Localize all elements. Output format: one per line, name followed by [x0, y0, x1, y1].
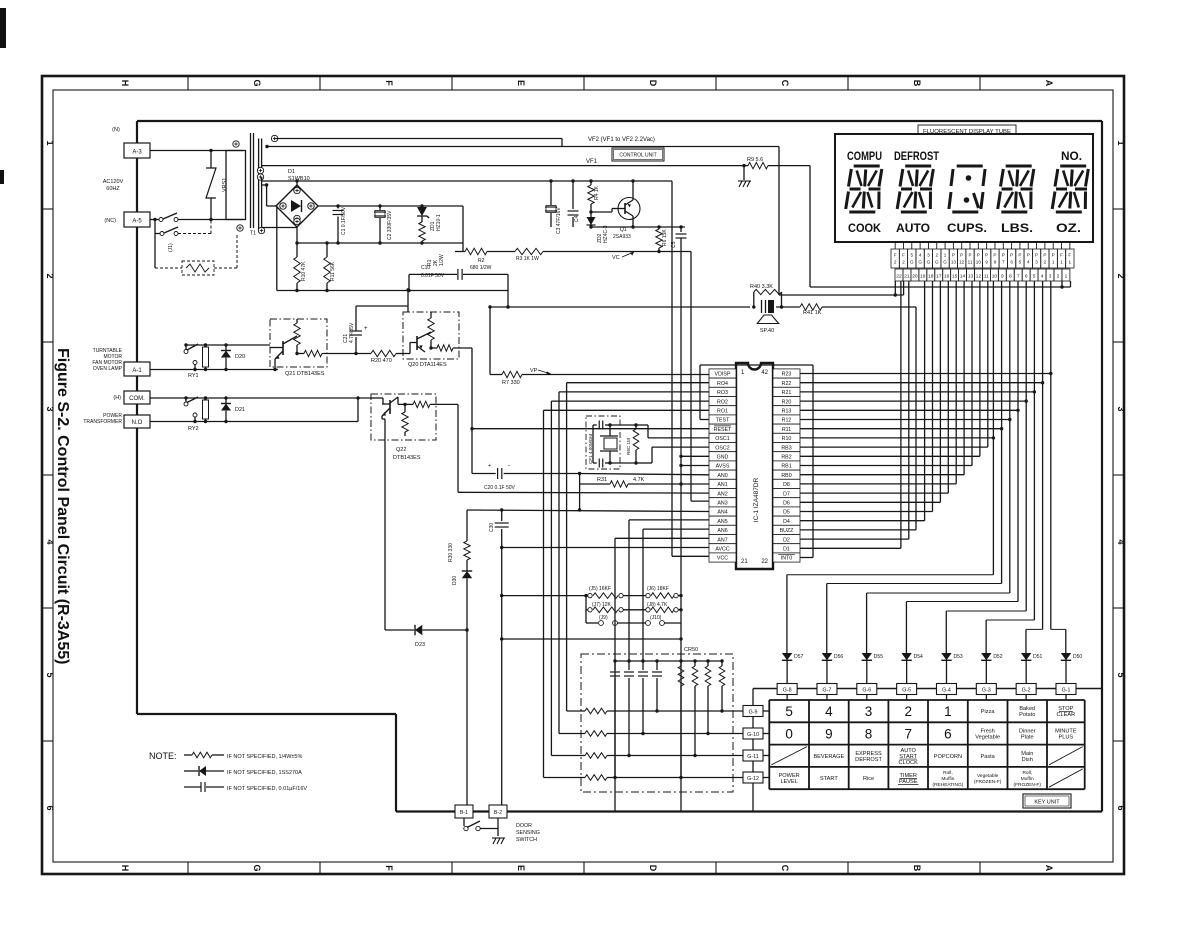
svg-text:P: P [968, 253, 971, 258]
svg-text:TRANSFORMER: TRANSFORMER [83, 419, 122, 425]
scan line RO4 [567, 382, 709, 384]
zener ZD2 HZ4C-3 [590, 212, 592, 227]
svg-text:5: 5 [1116, 672, 1126, 677]
transformer T1 secondary winding [258, 139, 260, 231]
svg-text:VDISP: VDISP [715, 372, 731, 378]
capacitor C4 [572, 181, 574, 209]
note capacitor symbol [184, 786, 201, 788]
wire D5 [800, 511, 933, 513]
svg-text:POPCORN: POPCORN [934, 754, 962, 760]
wire COM to Q22 [150, 397, 371, 399]
svg-text:19: 19 [920, 274, 926, 280]
wire N.O line [150, 421, 358, 423]
svg-text:START: START [820, 776, 838, 782]
svg-text:11: 11 [968, 260, 973, 265]
svg-text:Q21 DTB143ES: Q21 DTB143ES [285, 371, 325, 377]
IC-1 right pin INT0 [773, 553, 800, 562]
svg-text:2: 2 [45, 273, 55, 278]
svg-text:P: P [1010, 253, 1013, 258]
svg-text:2: 2 [1057, 274, 1060, 280]
svg-text:6: 6 [1116, 805, 1126, 810]
svg-text:4: 4 [45, 539, 55, 544]
svg-text:-: - [508, 462, 510, 469]
svg-text:Vegetable: Vegetable [977, 773, 999, 779]
svg-text:CF1 4.00MGM: CF1 4.00MGM [588, 434, 593, 464]
svg-text:F: F [1060, 253, 1063, 258]
ceramic filter CF1 4.00MHz [586, 416, 620, 469]
svg-text:S1WB10: S1WB10 [288, 176, 310, 182]
svg-text:LEVEL: LEVEL [780, 779, 797, 785]
svg-text:3: 3 [1049, 274, 1052, 280]
key blank diag 1 [771, 747, 807, 765]
RY1 top line [186, 344, 270, 346]
wire stair R23 to key column [1050, 374, 1052, 630]
svg-text:11: 11 [984, 274, 989, 280]
IC-1 right pin RB1 [773, 461, 800, 470]
svg-text:5: 5 [1033, 274, 1036, 280]
wire RB0 [800, 474, 964, 476]
svg-text:1: 1 [1116, 140, 1126, 145]
svg-text:OZ.: OZ. [1056, 221, 1081, 235]
note resistor symbol [184, 754, 192, 756]
zener ZD1 HZ10-1 [421, 206, 423, 207]
svg-text:18: 18 [928, 274, 934, 280]
svg-text:C3 47F/16V: C3 47F/16V [556, 207, 562, 234]
varistor VRS1 [210, 151, 212, 169]
svg-text:12: 12 [976, 274, 982, 280]
svg-text:R12: R12 [782, 418, 792, 424]
resistor R9 5.6 [745, 165, 748, 167]
crystal to OSC pins [636, 424, 648, 426]
diode D54 [901, 653, 911, 660]
svg-text:D6: D6 [783, 501, 790, 507]
svg-text:3: 3 [1116, 406, 1126, 411]
IC-1 left pin RO2 [709, 397, 736, 406]
svg-text:1: 1 [944, 253, 947, 258]
IC-1 left pin AN7 [709, 535, 736, 544]
R30 330 column [466, 510, 468, 541]
svg-text:(N): (N) [112, 127, 120, 133]
svg-text:NO.: NO. [1061, 151, 1082, 163]
svg-text:D5: D5 [783, 510, 790, 516]
svg-text:G: G [943, 260, 947, 265]
IC-1 left pin VCC [709, 553, 736, 562]
svg-text:6: 6 [1010, 260, 1013, 265]
svg-text:R13: R13 [782, 409, 792, 415]
svg-text:2SA933: 2SA933 [613, 234, 631, 240]
node G-2 [1016, 684, 1036, 695]
display tube box [835, 134, 1093, 242]
svg-text:D56: D56 [834, 654, 843, 660]
terminal A-1 [124, 362, 150, 376]
svg-text:42: 42 [761, 370, 768, 376]
wire R20 [800, 400, 1026, 402]
svg-text:COMPU: COMPU [847, 151, 882, 163]
svg-text:20: 20 [912, 274, 918, 280]
svg-text:Roll,: Roll, [1022, 770, 1032, 776]
diode D53 [941, 653, 951, 660]
svg-text:E: E [516, 80, 526, 86]
svg-text:D57: D57 [794, 654, 803, 660]
CR50 top bus [615, 660, 722, 662]
svg-text:8: 8 [1009, 274, 1012, 280]
IC-1 right pin D2 [773, 535, 800, 544]
DC- rail [296, 227, 298, 257]
wire AN4 rail [467, 510, 709, 512]
svg-text:C: C [780, 865, 790, 872]
svg-text:9: 9 [1001, 274, 1004, 280]
resistor key row G-11 [551, 755, 585, 757]
svg-text:F: F [384, 80, 394, 86]
svg-text:680 1/2W: 680 1/2W [470, 265, 492, 271]
svg-text:LBS.: LBS. [1001, 221, 1033, 235]
rail 182 [262, 180, 672, 182]
wire RB2 [800, 455, 980, 457]
IC-1 right pin R21 [773, 387, 800, 396]
IC-1 left pin AN4 [709, 507, 736, 516]
Q21 output resistor [297, 353, 304, 355]
svg-text:(FROZEN-F): (FROZEN-F) [974, 779, 1002, 785]
svg-text:P: P [952, 253, 955, 258]
wire D1 [800, 547, 901, 549]
svg-text:G: G [935, 260, 939, 265]
wire Q20 output / RESET / C20 [471, 348, 473, 474]
Q20 output resistor [425, 348, 437, 352]
svg-text:R30 330: R30 330 [448, 543, 454, 562]
svg-text:G: G [252, 79, 262, 86]
svg-text:P: P [1002, 253, 1005, 258]
svg-text:COM.: COM. [129, 396, 145, 402]
resistor key row G-12 [544, 777, 586, 779]
wire D8 [800, 483, 956, 485]
svg-text:1: 1 [45, 140, 55, 145]
capacitor C30 [501, 510, 503, 521]
svg-text:INT0: INT0 [781, 556, 793, 562]
key blank diag 2 [1049, 747, 1083, 765]
svg-text:RB1: RB1 [781, 464, 791, 470]
IC-1 left pin AN1 [709, 479, 736, 488]
svg-text:D54: D54 [914, 654, 923, 660]
svg-text:+: + [488, 463, 491, 469]
svg-text:C1 0.1F/50V: C1 0.1F/50V [341, 206, 347, 235]
Q22 output resistor [397, 397, 399, 404]
wire D7 [800, 492, 948, 494]
svg-text:4: 4 [1116, 539, 1126, 544]
IC-1 right pin D6 [773, 498, 800, 507]
svg-text:R41 1K: R41 1K [803, 310, 822, 316]
display connector pin number row [895, 269, 903, 281]
svg-text:IC-1 IZA487DR: IC-1 IZA487DR [753, 477, 760, 522]
svg-text:AN1: AN1 [717, 482, 727, 488]
DC+ rail [318, 205, 463, 207]
key blank diag 3 [1049, 769, 1083, 787]
svg-text:Figure S-2. Control Panel Cir: Figure S-2. Control Panel Circuit (R-3A5… [54, 348, 71, 664]
svg-text:PLUS: PLUS [1059, 734, 1074, 740]
svg-text:HZ10-1: HZ10-1 [436, 214, 442, 231]
wire R12 [800, 419, 1010, 421]
svg-text:Roll,: Roll, [943, 770, 953, 776]
svg-text:B-2: B-2 [494, 810, 502, 816]
IC-1 right pin RB0 [773, 470, 800, 479]
diode D51 [1021, 653, 1031, 660]
svg-text:5: 5 [45, 672, 55, 677]
diode D57 [782, 653, 792, 660]
interlock switch 2 (J1) [153, 218, 156, 221]
svg-text:E: E [516, 865, 526, 871]
svg-text:15: 15 [952, 274, 958, 280]
jumper (J7) 12K [586, 609, 588, 611]
svg-text:1: 1 [1065, 274, 1068, 280]
CR50 resistor 4 [720, 659, 723, 662]
svg-text:(J8) 4.7K: (J8) 4.7K [647, 602, 668, 608]
svg-text:R11 56K: R11 56K [330, 261, 336, 281]
CR50 resistor 2 [693, 659, 696, 662]
svg-text:R10 47K: R10 47K [301, 261, 307, 281]
node G-11 [743, 750, 763, 761]
wire VF1 [262, 165, 745, 167]
IC-1 right pin D5 [773, 507, 800, 516]
transistor Q1 2SA933 [618, 198, 640, 220]
svg-text:P: P [960, 253, 963, 258]
svg-text:G: G [918, 260, 922, 265]
svg-text:DEFROST: DEFROST [894, 151, 939, 163]
T1 terminal marks [233, 141, 239, 147]
IC-1 right pin D1 [773, 544, 800, 553]
svg-text:D2: D2 [783, 537, 790, 543]
IC-1 left pin OSC1 [709, 433, 736, 442]
IC-1 right pin RB3 [773, 443, 800, 452]
svg-text:VC: VC [612, 255, 620, 261]
svg-text:5: 5 [785, 704, 793, 719]
svg-text:Pizza: Pizza [981, 709, 996, 715]
svg-text:RB3: RB3 [781, 445, 791, 451]
CR50 resistor 1 [679, 659, 682, 662]
svg-text:RO3: RO3 [717, 390, 728, 396]
svg-text:SWITCH: SWITCH [516, 837, 537, 843]
svg-text:G-1: G-1 [1062, 688, 1071, 694]
svg-text:2: 2 [935, 253, 938, 258]
svg-text:6: 6 [1025, 274, 1028, 280]
svg-text:TEST: TEST [716, 418, 730, 424]
svg-text:AN5: AN5 [717, 519, 727, 525]
capacitor C3 47F/16V [550, 181, 552, 205]
svg-text:(FROZEN-F): (FROZEN-F) [1014, 782, 1042, 788]
svg-text:C4: C4 [574, 215, 580, 222]
IC-1 left pin AN5 [709, 516, 736, 525]
node G-4 [936, 684, 956, 695]
wire VF1 to F1 pins [809, 166, 811, 287]
svg-text:F: F [894, 253, 897, 258]
relay RY1 contact [185, 345, 187, 350]
svg-text:KEY UNIT: KEY UNIT [1034, 800, 1060, 806]
svg-text:BEVERAGE: BEVERAGE [813, 754, 844, 760]
svg-text:IF NOT SPECIFIED, 1/4W±5%: IF NOT SPECIFIED, 1/4W±5% [227, 754, 302, 760]
svg-text:G-7: G-7 [823, 688, 832, 694]
resistor R31 4.7K [579, 474, 581, 511]
transistor Q20 DTA114ES [403, 312, 459, 359]
svg-text:13: 13 [951, 260, 957, 265]
svg-text:AUTO: AUTO [896, 221, 930, 235]
svg-text:F: F [384, 865, 394, 871]
svg-text:R20: R20 [782, 399, 792, 405]
svg-text:P: P [977, 253, 980, 258]
wire VF2 [267, 146, 779, 148]
svg-text:C: C [780, 80, 790, 87]
IC-1 right pin R22 [773, 378, 800, 387]
svg-text:D: D [648, 80, 658, 87]
terminal COM [124, 391, 150, 404]
svg-text:5: 5 [1019, 260, 1022, 265]
wire R23 [800, 373, 1051, 375]
relay RY2 contact [184, 402, 188, 406]
svg-text:Dish: Dish [1022, 757, 1033, 763]
svg-text:Vegetable: Vegetable [975, 734, 1000, 740]
IC-1 right pin BUZZ [773, 525, 800, 534]
svg-text:R31: R31 [597, 477, 607, 483]
svg-text:H: H [120, 865, 130, 872]
svg-text:G-5: G-5 [902, 688, 911, 694]
wire AVSS [681, 465, 709, 467]
svg-text:DEFROST: DEFROST [855, 757, 882, 763]
svg-text:0: 0 [785, 726, 793, 741]
svg-text:4.7K: 4.7K [633, 477, 645, 483]
svg-text:2: 2 [1044, 260, 1047, 265]
wire RB3 [800, 446, 988, 448]
svg-text:A: A [1044, 865, 1054, 872]
IC-1 right pin D4 [773, 516, 800, 525]
jumper (J8) 4.7K [646, 608, 650, 612]
svg-text:(REHEATING): (REHEATING) [932, 782, 963, 788]
svg-text:16: 16 [944, 274, 950, 280]
svg-text:R9 5.6: R9 5.6 [747, 157, 763, 163]
svg-text:P: P [1052, 253, 1055, 258]
wire INT0 route [800, 557, 813, 559]
svg-text:R11: R11 [782, 427, 791, 433]
main circuit outline [137, 120, 1102, 122]
svg-text:22: 22 [896, 274, 902, 280]
svg-text:AN3: AN3 [717, 501, 727, 507]
resonator network CR50 box [581, 654, 733, 792]
svg-text:P: P [985, 253, 988, 258]
scan line RO3 [559, 391, 709, 393]
wire to B-1 [466, 630, 468, 805]
svg-text:R4 1K: R4 1K [594, 185, 600, 200]
wire R21 [800, 391, 1034, 393]
svg-text:R23: R23 [782, 372, 792, 378]
svg-text:(J5) 16KF: (J5) 16KF [589, 586, 611, 592]
svg-text:D30: D30 [452, 576, 458, 585]
IC-1 left pin RO3 [709, 387, 736, 396]
svg-text:B-1: B-1 [460, 810, 468, 816]
svg-text:(J9): (J9) [599, 615, 608, 621]
svg-text:P: P [993, 253, 996, 258]
node G-6 [857, 684, 877, 695]
wire R10 [800, 437, 993, 439]
svg-text:B: B [912, 80, 922, 87]
svg-text:RESET: RESET [714, 427, 732, 433]
svg-text:Q1: Q1 [620, 227, 627, 233]
rail 639 [502, 638, 681, 640]
svg-text:R6C 1M: R6C 1M [626, 438, 631, 455]
diode D20 [225, 345, 227, 350]
svg-text:VCC: VCC [717, 556, 728, 562]
svg-text:G-8: G-8 [783, 688, 792, 694]
IC-1 right pin R10 [773, 433, 800, 442]
display digit col5 [1060, 165, 1086, 168]
outer border frame [42, 76, 1124, 874]
svg-text:4.7F/35V: 4.7F/35V [349, 322, 355, 343]
IC-1 left pin RO4 [709, 378, 736, 387]
VC feed vertical [690, 252, 692, 502]
svg-text:RO2: RO2 [717, 399, 728, 405]
svg-text:A-1: A-1 [132, 368, 142, 374]
svg-text:4: 4 [825, 704, 833, 719]
resistor key row G-9 [567, 710, 585, 712]
svg-text:RB0: RB0 [781, 473, 791, 479]
key unit label box [1023, 794, 1071, 808]
emitter rail 227 [591, 226, 685, 228]
svg-text:RB2: RB2 [781, 455, 791, 461]
svg-text:A-3: A-3 [132, 150, 142, 156]
wire stair R11 to key column [1001, 429, 1003, 584]
IC-1 right pin D7 [773, 489, 800, 498]
svg-text:OVEN LAMP: OVEN LAMP [93, 366, 123, 372]
svg-text:C30: C30 [489, 523, 495, 532]
IC-1 left pin AVCC [709, 544, 736, 553]
svg-text:CLOCK: CLOCK [899, 760, 919, 766]
svg-text:Pasta: Pasta [980, 754, 995, 760]
diode D56 [822, 653, 832, 660]
IC-1 left pin GND [709, 452, 736, 461]
svg-text:N.O: N.O [132, 420, 143, 426]
transistor Q22 DTB143ES [371, 394, 436, 440]
capacitor C20 0.1F 50V [472, 473, 496, 475]
svg-text:R2: R2 [478, 258, 485, 264]
wire R11 [800, 428, 1002, 430]
svg-text:4: 4 [919, 253, 922, 258]
relay coil RY1 [203, 347, 209, 367]
svg-text:RY1: RY1 [188, 373, 199, 379]
node G-9 [743, 706, 763, 717]
svg-text:1: 1 [1069, 260, 1072, 265]
svg-text:D20: D20 [235, 354, 245, 360]
svg-text:COOK: COOK [848, 221, 881, 235]
svg-text:3: 3 [45, 406, 55, 411]
svg-text:D4: D4 [783, 519, 790, 525]
svg-text:1: 1 [1052, 260, 1055, 265]
wire stair R12 to key column [1009, 420, 1011, 594]
wire VF2 tap A [275, 138, 562, 140]
display digit col1 [854, 165, 880, 168]
svg-text:VF2 (VF1 to VF2 2.2Vac): VF2 (VF1 to VF2 2.2Vac) [588, 137, 655, 143]
Q22 collector resistor [397, 397, 399, 404]
svg-text:D52: D52 [993, 654, 1002, 660]
svg-text:17: 17 [936, 274, 942, 280]
svg-text:AN6: AN6 [717, 528, 727, 534]
svg-text:C20 0.1F 50V: C20 0.1F 50V [484, 485, 516, 491]
svg-text:12: 12 [959, 260, 965, 265]
display connector pin name row [891, 249, 899, 268]
svg-text:8: 8 [994, 260, 997, 265]
interlock switch 1 [159, 218, 163, 222]
CR50 capacitor 1 [613, 659, 616, 662]
svg-text:4: 4 [1027, 260, 1030, 265]
node G-7 [817, 684, 837, 695]
svg-text:D23: D23 [415, 642, 425, 648]
CR50 capacitor 2 [627, 659, 630, 662]
svg-text:C10: C10 [421, 265, 430, 271]
wire RB1 [800, 465, 972, 467]
